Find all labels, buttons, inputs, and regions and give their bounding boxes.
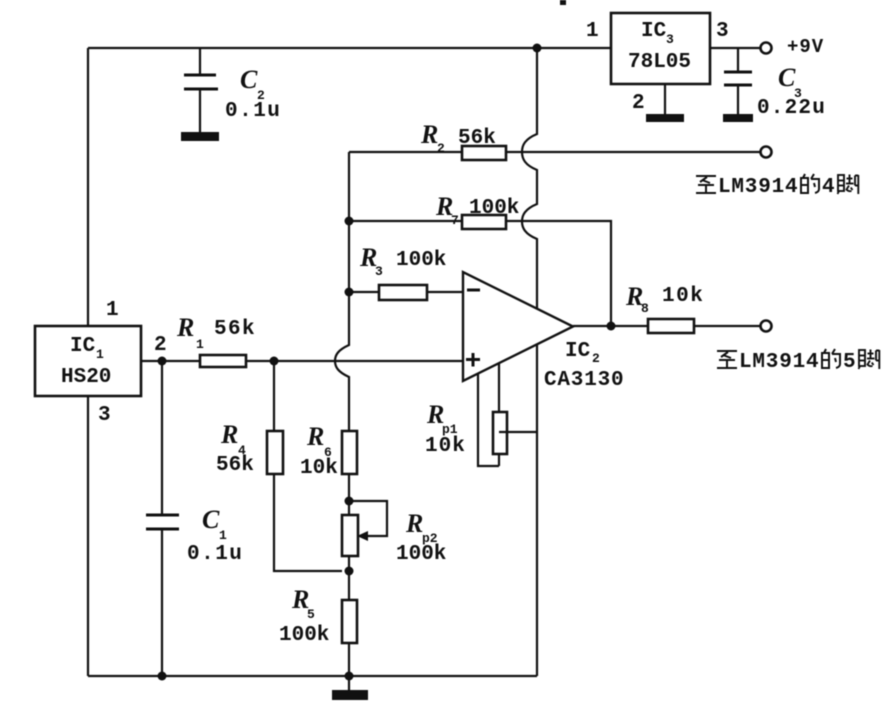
svg-text:3: 3 <box>98 404 111 427</box>
svg-text:100k: 100k <box>396 249 446 272</box>
wire C1 branch <box>161 361 163 676</box>
svg-text:1: 1 <box>219 528 227 543</box>
resistor R8 10k <box>648 319 694 333</box>
svg-text:2: 2 <box>592 351 600 366</box>
svg-text:HS20: HS20 <box>61 366 111 389</box>
svg-text:56k: 56k <box>216 454 254 477</box>
op-amp IC2 triangle <box>463 272 573 381</box>
capacitor C2 stem <box>199 48 201 133</box>
wire left bus upper (IC1 pin1) <box>87 48 89 326</box>
op-amp minus sign <box>467 289 480 292</box>
net label: to LM3914 pin 5 <box>717 351 737 368</box>
IC3 box 78L05 <box>611 13 710 84</box>
svg-text:LM3914: LM3914 <box>718 176 798 199</box>
op-amp U1 offset pin wires <box>478 360 499 466</box>
wire left bus lower (IC1 pin3) <box>87 396 89 676</box>
potentiometer Rp1 body <box>493 412 507 454</box>
terminal to LM3914 pin5 <box>761 321 772 332</box>
svg-text:7: 7 <box>451 213 459 228</box>
svg-text:5: 5 <box>843 351 856 374</box>
svg-text:78L05: 78L05 <box>628 51 691 74</box>
wire top rail <box>88 47 611 49</box>
wire op-amp output to terminal <box>573 325 761 327</box>
svg-text:56k: 56k <box>214 318 256 341</box>
svg-text:3: 3 <box>666 32 674 47</box>
resistor R6 10k <box>342 431 357 474</box>
wire IC3 pin3 output <box>710 47 761 49</box>
wire R7 feedback line <box>349 221 611 326</box>
resistor R2 56k <box>462 146 506 160</box>
ground (main rail) <box>348 676 350 691</box>
svg-text:0.22u: 0.22u <box>757 97 826 120</box>
ground (C2) <box>181 132 219 141</box>
svg-text:R: R <box>420 120 438 149</box>
svg-text:10k: 10k <box>662 285 704 308</box>
capacitor C2 plates <box>184 75 218 89</box>
ground (C3) <box>723 114 753 122</box>
svg-text:5: 5 <box>307 607 315 622</box>
svg-text:3: 3 <box>375 264 383 279</box>
svg-text:LM3914: LM3914 <box>739 351 819 374</box>
svg-text:100k: 100k <box>469 197 519 220</box>
resistor R7 100k <box>462 215 506 229</box>
svg-text:100k: 100k <box>396 543 446 566</box>
svg-text:IC: IC <box>641 20 667 43</box>
svg-text:4: 4 <box>822 176 835 199</box>
svg-text:C: C <box>240 65 258 94</box>
wire V+ / V- riser with hops over R2 and R7 wires <box>522 48 537 676</box>
wire C3 branch <box>737 48 739 114</box>
svg-text:IC: IC <box>70 335 96 358</box>
svg-text:IC: IC <box>565 340 591 363</box>
IC1 box HS20 <box>35 326 141 396</box>
potentiometer Rp2 body <box>342 515 358 556</box>
resistor R4 56k <box>267 431 283 474</box>
terminal +9V <box>761 43 772 54</box>
capacitor C1 plates <box>146 515 179 529</box>
svg-text:R: R <box>220 420 238 449</box>
wire mid bus with hop over + input wire <box>335 152 349 676</box>
resistor R5 100k <box>342 600 357 643</box>
wire Rp1 wiper <box>499 431 537 433</box>
svg-text:3: 3 <box>716 20 729 43</box>
svg-text:56k: 56k <box>458 127 496 150</box>
wire IC1 pin2 to op-amp + input <box>141 360 463 362</box>
stray mark (cropped title) <box>560 0 566 5</box>
svg-text:1: 1 <box>196 337 204 352</box>
svg-text:R: R <box>306 422 324 451</box>
svg-text:2: 2 <box>154 334 167 357</box>
wire R2 56k line to LM3914 pin4 terminal <box>349 151 761 153</box>
svg-text:1: 1 <box>96 347 104 362</box>
svg-text:10k: 10k <box>300 457 338 480</box>
svg-text:0.1u: 0.1u <box>187 543 243 566</box>
wire R4 branch <box>274 361 342 571</box>
svg-text:10k: 10k <box>425 435 466 458</box>
op-amp plus sign <box>466 353 480 367</box>
terminal to LM3914 pin4 <box>761 147 772 158</box>
svg-text:2: 2 <box>437 141 445 156</box>
svg-text:1: 1 <box>586 20 599 43</box>
svg-text:8: 8 <box>641 301 649 316</box>
wire bottom ground rail <box>88 675 537 677</box>
svg-text:100k: 100k <box>279 624 329 647</box>
svg-text:+9V: +9V <box>787 36 824 58</box>
svg-text:R: R <box>405 509 423 538</box>
svg-text:2: 2 <box>632 92 645 115</box>
svg-text:0.1u: 0.1u <box>225 100 281 123</box>
svg-text:C: C <box>202 505 220 534</box>
svg-text:1: 1 <box>106 299 119 322</box>
svg-text:R: R <box>176 313 194 342</box>
potentiometer Rp2 wiper arrow <box>349 501 387 536</box>
svg-text:CA3130: CA3130 <box>544 369 624 392</box>
wire IC3 pin2 to ground <box>664 84 666 114</box>
wire R3 to - input <box>349 291 463 293</box>
node junction dots <box>533 44 542 53</box>
net label: to LM3914 pin 4 <box>696 176 716 193</box>
resistor R3 100k <box>379 285 427 300</box>
ground (IC3 pin2) <box>646 114 684 122</box>
capacitor C3 plates <box>724 72 752 85</box>
resistor R1 <box>200 355 246 367</box>
